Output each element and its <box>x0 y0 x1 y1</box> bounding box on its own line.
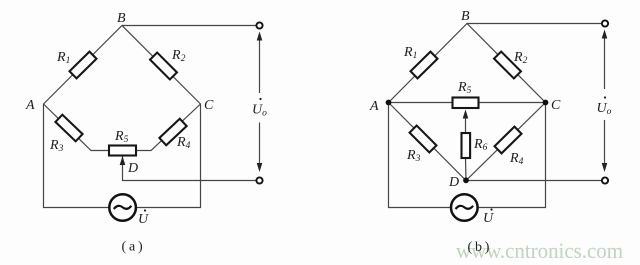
svg-text:(a): (a) <box>122 240 146 255</box>
svg-text:Uo: Uo <box>597 101 612 117</box>
svg-text:R3: R3 <box>49 138 64 154</box>
svg-text:R4: R4 <box>509 151 524 167</box>
svg-text:R3: R3 <box>406 148 421 164</box>
svg-text:R6: R6 <box>473 137 488 153</box>
svg-text:R4: R4 <box>176 135 191 151</box>
svg-text:Uo: Uo <box>252 103 267 119</box>
svg-text:R1: R1 <box>56 50 70 66</box>
svg-text:R5: R5 <box>457 80 472 96</box>
svg-text:B: B <box>117 11 126 26</box>
svg-text:R2: R2 <box>171 48 186 64</box>
svg-text:(b): (b) <box>468 240 493 255</box>
svg-text:C: C <box>551 98 561 113</box>
svg-text:U: U <box>138 212 149 227</box>
svg-text:D: D <box>127 161 138 176</box>
svg-text:R5: R5 <box>114 129 129 145</box>
svg-text:D: D <box>448 175 459 190</box>
svg-text:A: A <box>25 98 35 113</box>
svg-text:A: A <box>369 99 379 114</box>
svg-text:U: U <box>483 211 494 226</box>
svg-text:R1: R1 <box>403 45 417 61</box>
svg-text:B: B <box>461 9 470 24</box>
svg-text:R2: R2 <box>513 50 528 66</box>
svg-text:C: C <box>204 98 214 113</box>
